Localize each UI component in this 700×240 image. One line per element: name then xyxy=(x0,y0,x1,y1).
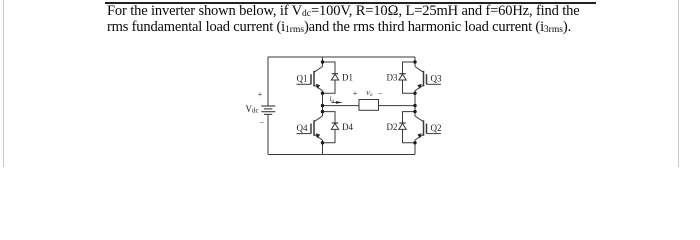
wire: load left xyxy=(323,105,360,107)
svg-text:Q1: Q1 xyxy=(297,74,308,84)
circuit schematic xyxy=(0,0,700,167)
transistor Q2 xyxy=(415,112,441,143)
wire: load right xyxy=(379,105,416,107)
svg-text:Q4: Q4 xyxy=(297,123,308,133)
svg-text:D1: D1 xyxy=(342,73,353,83)
current arrow io xyxy=(332,101,343,104)
node: D3-Q3 top junction xyxy=(413,60,416,63)
node: Q1-D1 bottom junction xyxy=(321,92,324,95)
faint right page line xyxy=(678,0,679,167)
node: Q4-D4 bottom junction xyxy=(321,141,324,144)
svg-text:D3: D3 xyxy=(387,73,398,83)
wire: left leg bottom stub xyxy=(322,143,324,155)
diode D2 xyxy=(399,112,415,143)
node: D3-Q3 bottom junction xyxy=(413,92,416,95)
load resistor box xyxy=(359,100,379,111)
node: D2-Q2 bottom junction xyxy=(413,141,416,144)
problem text line 1 xyxy=(107,3,580,19)
diode D1 xyxy=(323,62,339,93)
junction dots xyxy=(321,60,417,144)
node: load right junction xyxy=(413,104,416,107)
battery Vdc plates xyxy=(261,106,275,114)
svg-text:−: − xyxy=(378,89,383,98)
svg-text:Q3: Q3 xyxy=(431,74,442,84)
svg-text:Vdc: Vdc xyxy=(246,104,259,115)
svg-text:D4: D4 xyxy=(342,122,353,132)
labels xyxy=(246,73,442,134)
wire: right leg top stub xyxy=(414,57,416,62)
wire: right leg bottom stub xyxy=(414,143,416,155)
transistor Q3 xyxy=(415,62,441,93)
node: Q4-D4 top junction xyxy=(321,110,324,113)
svg-text:+: + xyxy=(258,90,263,99)
top horizontal rule xyxy=(105,2,596,4)
wire: right leg between cells xyxy=(414,93,416,111)
svg-text:+: + xyxy=(353,89,358,98)
faint left page line xyxy=(3,0,4,167)
svg-text:Vo: Vo xyxy=(366,90,373,98)
diode D4 xyxy=(323,112,339,143)
wire: bottom rail xyxy=(268,154,415,156)
svg-text:io: io xyxy=(330,95,335,104)
node: Q1-D1 top junction xyxy=(321,60,324,63)
wire: left leg top stub xyxy=(322,57,324,62)
wire: left leg between cells xyxy=(322,93,324,111)
node: load left junction xyxy=(321,104,324,107)
node: D2-Q2 top junction xyxy=(413,110,416,113)
problem text line 2 xyxy=(107,19,571,35)
svg-text:−: − xyxy=(259,118,264,127)
diode D3 xyxy=(399,62,415,93)
transistor Q1 xyxy=(297,62,323,93)
wire: battery branch lower xyxy=(267,114,269,154)
svg-text:Q2: Q2 xyxy=(431,123,442,133)
svg-text:D2: D2 xyxy=(387,122,398,132)
transistor Q4 xyxy=(297,112,323,143)
wire: top rail xyxy=(268,56,415,58)
wire: battery branch upper xyxy=(267,57,269,106)
